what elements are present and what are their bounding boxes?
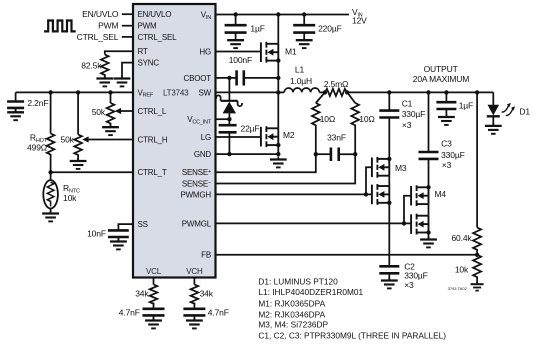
svg-text:LG: LG	[201, 133, 211, 142]
wire HG	[216, 51, 261, 53]
svg-text:VCL: VCL	[146, 267, 162, 276]
ground 220uF input	[303, 33, 305, 38]
wire SYNC	[122, 63, 133, 77]
svg-text:10k: 10k	[63, 193, 77, 203]
svg-text:M2: M2	[283, 130, 295, 140]
ground SYNC	[114, 76, 131, 87]
svg-text:1µF: 1µF	[250, 23, 264, 33]
node sense left junction	[323, 90, 327, 94]
wire PWMGL	[216, 196, 412, 224]
ground 1uF input	[235, 33, 237, 38]
svg-text:1µF: 1µF	[459, 100, 473, 110]
transistor M4 lower	[411, 214, 428, 235]
svg-text:SW: SW	[199, 88, 212, 97]
ground RNTC	[50, 209, 52, 214]
resistor 10k FB	[473, 255, 481, 282]
svg-text:M3: M3	[395, 163, 407, 173]
svg-text:82.5k: 82.5k	[81, 61, 102, 71]
svg-text:4.7nF: 4.7nF	[208, 307, 229, 317]
wire EN/UVLO lead	[122, 13, 133, 15]
resistor 82.5k	[101, 55, 109, 76]
diode D2 bootstrap schottky	[228, 78, 230, 101]
svg-text:OUTPUT: OUTPUT	[424, 64, 458, 74]
wire M3 common source	[388, 176, 390, 186]
capacitor C2 330uF x3	[379, 265, 399, 268]
svg-text:SYNC: SYNC	[138, 59, 160, 68]
svg-text:PWM: PWM	[98, 21, 118, 31]
svg-text:M2: RJK0346DPA: M2: RJK0346DPA	[258, 309, 325, 319]
svg-text:EN/UVLO: EN/UVLO	[138, 10, 172, 19]
ground 10k	[476, 282, 478, 285]
wire CTRL_T	[51, 171, 133, 173]
ground CTRL_H pot	[77, 158, 79, 161]
node CTRL_T junction	[48, 170, 52, 174]
wire SENSE-	[216, 154, 356, 183]
wire CTRL_L wiper	[119, 110, 133, 112]
wire M4 common source	[428, 204, 430, 216]
svg-text:4.7nF: 4.7nF	[119, 307, 140, 317]
transistor M1	[261, 42, 278, 63]
capacitor 22uF	[228, 119, 230, 125]
node VIN rail dots	[233, 12, 237, 16]
potentiometer 50k CTRL_L	[110, 92, 112, 103]
svg-text:HG: HG	[199, 47, 211, 56]
node C3 rail junction	[426, 90, 430, 94]
svg-text:10nF: 10nF	[87, 228, 106, 238]
svg-text:20A MAXIMUM: 20A MAXIMUM	[413, 74, 470, 84]
node VREF junction dots	[48, 90, 52, 94]
wire SW	[216, 91, 279, 93]
svg-text:LT3743: LT3743	[163, 88, 189, 97]
resistor 60.4k	[473, 228, 481, 255]
ground C2	[388, 273, 390, 280]
node M4 drain dots	[426, 185, 430, 189]
svg-text:3743 TA02: 3743 TA02	[448, 286, 468, 291]
ground D1	[485, 123, 502, 134]
svg-text:D1: D1	[519, 106, 530, 116]
svg-text:PWMGL: PWMGL	[182, 219, 212, 228]
transistor M4 upper	[411, 185, 428, 206]
IC U1 LT3743 body	[133, 4, 216, 278]
ground M4	[428, 233, 430, 240]
svg-text:RT: RT	[138, 47, 148, 56]
wire left filter to sense+ node	[315, 130, 317, 155]
wire 22uF to GND rail	[228, 132, 230, 154]
svg-text:60.4k: 60.4k	[451, 233, 472, 243]
capacitor 33nF	[316, 153, 331, 155]
svg-text:SS: SS	[138, 220, 148, 229]
resistor 34k VCL	[150, 285, 158, 304]
node 1uF output rail junction	[444, 90, 448, 94]
svg-text:CTRL_SEL: CTRL_SEL	[77, 32, 119, 42]
parts list	[258, 277, 446, 341]
svg-text:PWM: PWM	[138, 22, 157, 31]
square wave PWM symbol	[44, 21, 76, 32]
svg-text:1.0µH: 1.0µH	[290, 76, 312, 86]
resistor RHOT 499ohm	[50, 92, 52, 133]
capacitor 4.7nF VCH	[193, 303, 195, 309]
svg-text:CTRL_H: CTRL_H	[138, 135, 168, 144]
svg-text:50k: 50k	[61, 135, 75, 145]
transistor M3 upper	[372, 157, 389, 178]
resistor 34k VCH	[191, 285, 199, 304]
svg-text:SENSE+: SENSE+	[182, 168, 211, 177]
wire RT	[105, 51, 133, 54]
svg-text:50k: 50k	[92, 107, 106, 117]
svg-text:499Ω: 499Ω	[27, 142, 47, 152]
wire PWMGH	[216, 167, 373, 194]
svg-text:220µF: 220µF	[318, 23, 342, 33]
wire M1 source to SW to M2 drain	[277, 61, 279, 129]
wire RHOT to CTRL_T	[50, 155, 52, 172]
wire VREF rail	[16, 91, 133, 93]
svg-text:34k: 34k	[135, 288, 149, 298]
wire 100nF to SW node	[244, 77, 278, 79]
node C1 rail junction	[387, 90, 391, 94]
ground CTRL_L pot	[110, 126, 112, 129]
svg-text:M4: M4	[435, 189, 447, 199]
wire CTRL_SEL lead	[122, 36, 133, 38]
wire VIN rail	[216, 14, 350, 16]
svg-text:FB: FB	[201, 251, 211, 260]
wire FB	[216, 254, 478, 256]
resistor 10ohm right sense filter	[347, 92, 355, 103]
svg-text:34k: 34k	[200, 288, 214, 298]
capacitor 10nF	[108, 229, 129, 232]
svg-text:D1: LUMINUS PT120: D1: LUMINUS PT120	[258, 277, 338, 287]
IC left pin labels	[138, 10, 178, 229]
svg-text:EN/UVLO: EN/UVLO	[82, 9, 119, 19]
capacitor 100nF CBOOT	[235, 70, 238, 85]
thermistor RNTC 10k	[50, 172, 52, 181]
wire CTRL_H wiper	[87, 139, 133, 141]
capacitor C3 330uF x3	[428, 92, 430, 152]
LED light arrows	[502, 106, 513, 116]
svg-text:VCH: VCH	[186, 267, 203, 276]
ground 1uF output	[445, 109, 447, 117]
svg-text:C1, C2, C3: PTPR330M9L (THREE: C1, C2, C3: PTPR330M9L (THREE IN PARALLE…	[258, 331, 446, 341]
resistor 10ohm left sense filter	[316, 92, 325, 103]
ground 10nF	[117, 237, 119, 241]
svg-text:C3: C3	[441, 139, 452, 149]
svg-text:SENSE−: SENSE−	[182, 179, 211, 188]
svg-text:L1: IHLP4040DZER1R0M01: L1: IHLP4040DZER1R0M01	[258, 287, 363, 297]
resistor 2.5mohm sense	[325, 89, 347, 96]
node FB junction	[475, 253, 479, 257]
svg-text:CTRL_L: CTRL_L	[138, 107, 167, 116]
wire M3 to C2	[388, 203, 390, 266]
wire SENSE+	[216, 154, 316, 172]
wire GND	[216, 153, 279, 155]
node M3 drain dots	[387, 157, 391, 161]
capacitor 4.7nF VCL	[153, 303, 155, 309]
svg-text:10Ω: 10Ω	[320, 114, 335, 124]
svg-text:2.5mΩ: 2.5mΩ	[324, 79, 349, 89]
capacitor 1uF output	[445, 92, 447, 102]
svg-text:10Ω: 10Ω	[359, 114, 374, 124]
wire output rail	[347, 91, 493, 93]
ground 2.2nF	[15, 108, 17, 112]
node sense right junction	[345, 90, 349, 94]
wire M1 drain to VIN rail	[277, 15, 279, 44]
wire VCL	[153, 278, 155, 285]
svg-text:10k: 10k	[455, 264, 469, 274]
svg-text:CTRL_SEL: CTRL_SEL	[138, 33, 178, 42]
wire right filter to sense- node	[354, 130, 356, 155]
capacitor 2.2nF	[15, 92, 17, 101]
svg-text:L1: L1	[295, 65, 305, 75]
wire LG	[216, 136, 261, 138]
svg-text:22µF: 22µF	[241, 124, 260, 134]
svg-text:330µF: 330µF	[402, 109, 426, 119]
svg-text:M1: M1	[285, 47, 297, 57]
ground GND pin / M2	[270, 157, 287, 168]
wire VCC_INT	[216, 118, 230, 120]
svg-text:×3: ×3	[442, 160, 452, 170]
ground VCH	[193, 315, 195, 320]
svg-text:330µF: 330µF	[441, 150, 465, 160]
IC right pin labels	[180, 10, 211, 259]
svg-text:CBOOT: CBOOT	[184, 74, 212, 83]
svg-text:×3: ×3	[404, 280, 414, 290]
wire rail to 60.4k	[476, 92, 478, 227]
svg-text:100nF: 100nF	[229, 55, 252, 65]
LED D1	[492, 92, 494, 105]
svg-text:PWMGH: PWMGH	[180, 190, 211, 199]
potentiometer 50k CTRL_H	[77, 92, 79, 134]
wire M2 source to ground	[277, 145, 279, 154]
svg-text:×3: ×3	[402, 120, 412, 130]
svg-text:C1: C1	[402, 98, 413, 108]
wire SS	[118, 224, 133, 230]
svg-text:2.2nF: 2.2nF	[27, 98, 48, 108]
wire VCH	[193, 278, 195, 285]
capacitor C1 330uF x3	[388, 92, 390, 110]
svg-text:M1: RJK0365DPA: M1: RJK0365DPA	[258, 299, 325, 309]
svg-text:M3, M4: Si7236DP: M3, M4: Si7236DP	[258, 320, 328, 330]
transistor M2	[261, 126, 278, 147]
ground RT	[104, 75, 106, 78]
svg-text:33nF: 33nF	[327, 132, 346, 142]
capacitor 220uF input	[303, 15, 305, 26]
inductor L1 1.0uH	[278, 91, 284, 93]
transistor M3 lower	[372, 184, 389, 205]
wire PWM lead	[122, 25, 133, 27]
capacitor 1uF input	[235, 15, 237, 26]
ground VCL	[153, 315, 155, 320]
svg-text:12V: 12V	[352, 16, 367, 26]
svg-text:GND: GND	[194, 150, 212, 159]
node FB divider rail junction	[475, 90, 479, 94]
svg-text:CTRL_T: CTRL_T	[138, 168, 167, 177]
wire CBOOT	[216, 77, 237, 79]
